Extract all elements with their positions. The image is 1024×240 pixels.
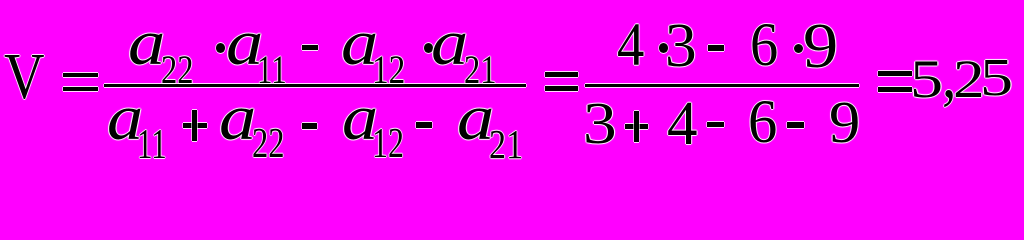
decimal comma <box>942 43 956 109</box>
denominator2 plus sign (vertical bar) <box>634 111 639 142</box>
numerator1 coefficient a of a11 <box>226 11 263 76</box>
denominator1 coefficient a of a21 <box>457 86 494 151</box>
numerator1 subscript 22 <box>161 50 194 90</box>
multiplication dot 3 <box>659 43 668 53</box>
denominator2 digit 6 <box>748 92 777 153</box>
denominator1 coefficient a of a22 <box>219 86 256 151</box>
numerator1 subscript 11 <box>257 50 287 90</box>
denominator2 minus sign 1 <box>707 122 724 127</box>
equals sign 3 (bottom bar) <box>878 87 912 92</box>
denominator1 subscript 21 <box>489 124 523 166</box>
numerator2 minus sign <box>708 45 725 51</box>
numerator1 subscript 12 <box>372 50 405 90</box>
numerator2 digit 4 <box>617 15 644 76</box>
equals sign 2 (top bar) <box>545 72 578 76</box>
numerator2 digit 3 <box>665 14 697 77</box>
denominator1 subscript 11 <box>137 125 167 167</box>
numerator1 coefficient a of a22 <box>128 11 165 76</box>
denominator2 digit 4 <box>667 92 697 155</box>
denominator1 plus sign (horizontal bar) <box>183 123 207 128</box>
variable V <box>4 44 45 110</box>
denominator1 subscript 12 <box>372 124 404 166</box>
denominator1 coefficient a of a12 <box>342 86 378 151</box>
numerator2 digit 9 <box>803 14 838 78</box>
fraction bar 2 <box>585 84 860 87</box>
multiplication dot 2 <box>424 43 433 53</box>
result digit 5 (second) <box>980 52 1013 105</box>
equals sign 3 (top bar) <box>878 71 912 76</box>
result digit 5 <box>910 53 943 107</box>
numerator1 minus sign <box>302 45 318 51</box>
multiplication dot 1 <box>216 43 225 53</box>
denominator2 digit 9 <box>829 93 860 153</box>
equals sign 2 (bottom bar) <box>545 86 578 91</box>
numerator1 coefficient a of a21 <box>431 11 468 76</box>
denominator1 subscript 22 <box>252 124 285 166</box>
denominator1 minus sign 1 <box>302 123 317 129</box>
equals sign 1 (top bar) <box>63 73 98 77</box>
denominator2 minus sign 2 <box>787 122 804 128</box>
numerator1 coefficient a of a12 <box>341 11 378 76</box>
numerator1 subscript 21 <box>464 50 497 90</box>
denominator1 plus sign (vertical bar) <box>192 110 197 141</box>
multiplication dot 4 <box>794 44 803 53</box>
result digit 2 <box>953 52 985 106</box>
denominator1 coefficient a of a11 <box>107 86 143 151</box>
numerator2 digit 6 <box>750 15 778 76</box>
denominator2 digit 3 <box>583 94 617 153</box>
fraction bar 1 <box>104 84 527 87</box>
denominator2 plus sign (horizontal bar) <box>625 124 648 129</box>
denominator1 minus sign 2 <box>416 122 432 128</box>
equals sign 1 (bottom bar) <box>63 87 98 91</box>
